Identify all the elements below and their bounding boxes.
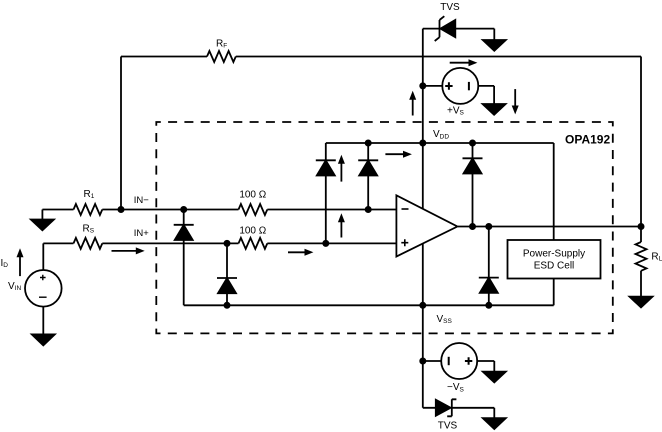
arrow right above +VS	[450, 59, 478, 66]
ground below RL	[630, 297, 653, 308]
arrow ID	[17, 248, 24, 276]
wire output node	[458, 226, 641, 228]
junction dot supply VSS	[419, 302, 426, 309]
svg-text:Power-Supply: Power-Supply	[523, 249, 585, 260]
op-amp U1	[396, 195, 457, 256]
TVS diode top	[423, 16, 495, 41]
svg-text:TVS: TVS	[438, 421, 458, 432]
arrow current into IN+ before box	[112, 247, 145, 254]
TVS diode bottom	[423, 399, 495, 416]
wire ESD cell top connector	[553, 143, 555, 240]
svg-text:VIN: VIN	[8, 281, 21, 292]
svg-text:OPA192: OPA192	[565, 133, 610, 147]
ground below VIN	[32, 334, 55, 345]
ground bottom TVS	[483, 418, 506, 429]
junction dot supply VDD	[419, 140, 426, 147]
svg-text:RS: RS	[83, 224, 95, 235]
arrow up left of +VS	[409, 91, 416, 116]
wire feedback left vertical	[120, 57, 122, 210]
wire ground stub left of R1	[41, 210, 43, 220]
junction dot D2 top	[365, 140, 372, 147]
svg-text:VDD: VDD	[433, 129, 449, 140]
resistor 100ohm on IN+	[239, 238, 268, 249]
junction dot D3 output	[469, 223, 476, 230]
wire D5 vertical IN- to VSS	[183, 210, 185, 306]
svg-text:IN−: IN−	[134, 195, 150, 206]
svg-text:+VS: +VS	[447, 105, 465, 116]
wire D2 vertical IN- to VDD	[367, 143, 369, 210]
wire VIN bottom stub	[42, 307, 44, 335]
svg-text:VSS: VSS	[437, 314, 453, 325]
wire IN- line	[42, 209, 396, 211]
wire TVS bottom to ground	[493, 408, 495, 418]
junction dot D2 bottom	[365, 206, 372, 213]
junction dot D4 bottom	[485, 302, 492, 309]
diode D6	[217, 278, 237, 293]
junction dot -VS tap	[419, 358, 426, 365]
wire -VS to ground	[493, 361, 495, 372]
svg-text:RF: RF	[216, 38, 227, 49]
rail VSS	[184, 304, 554, 306]
svg-text:RL: RL	[651, 251, 662, 262]
ground below R1	[31, 220, 54, 231]
box power-supply ESD cell	[508, 240, 601, 279]
current source +VS	[423, 68, 494, 104]
svg-text:ID: ID	[1, 258, 9, 269]
resistor RS	[74, 238, 103, 249]
arrow current on IN+ after 100ohm	[288, 249, 313, 256]
junction dot D4 output	[485, 223, 492, 230]
junction dot +VS tap	[419, 82, 426, 89]
wire TVS top to ground	[493, 29, 495, 40]
wire D4 vertical output to VSS	[488, 227, 490, 306]
junction dot feedback to IN-	[118, 206, 125, 213]
wire +VS to ground	[493, 86, 495, 104]
svg-text:100 Ω: 100 Ω	[239, 226, 266, 237]
wire ESD cell bottom connector	[553, 279, 555, 306]
junction dot D5 top	[180, 206, 187, 213]
svg-text:ESD Cell: ESD Cell	[534, 260, 575, 271]
resistor 100ohm on IN-	[239, 204, 268, 215]
junction dot D1 bottom	[322, 240, 329, 247]
wire D3 vertical output to VDD	[472, 143, 474, 227]
svg-text:IN+: IN+	[134, 228, 150, 239]
junction dot D6 top	[224, 240, 231, 247]
ground top TVS	[483, 40, 506, 51]
supply vertical line	[422, 29, 424, 408]
ground -VS	[483, 372, 506, 383]
arrow down right of +VS ground	[512, 89, 519, 114]
arrow right toward supply node	[385, 151, 412, 158]
arrow up right of D1	[338, 155, 345, 182]
wire IN+ line	[43, 242, 396, 244]
diode D3	[463, 158, 483, 173]
diode D5	[174, 225, 194, 240]
resistor RF	[207, 51, 236, 62]
ground +VS	[483, 104, 506, 115]
diode D1	[316, 160, 336, 175]
resistor R1	[74, 204, 103, 215]
wire D6 vertical IN+ to VSS	[226, 243, 228, 305]
diode D4	[479, 278, 499, 293]
wire feedback top rail	[121, 56, 641, 58]
wire D1 vertical IN+ to VDD	[325, 143, 327, 243]
resistor RL	[636, 227, 647, 297]
svg-text:−VS: −VS	[447, 382, 465, 393]
junction dot D6 bottom	[224, 302, 231, 309]
diode D2	[358, 160, 378, 175]
source VIN	[25, 243, 62, 306]
dashed boundary OPA192	[156, 122, 613, 333]
svg-text:100 Ω: 100 Ω	[239, 190, 266, 201]
current source -VS	[423, 343, 495, 379]
wire output right vertical	[640, 57, 642, 227]
junction dot D3 top	[469, 140, 476, 147]
svg-text:R1: R1	[84, 189, 95, 200]
rail VDD	[326, 142, 554, 144]
arrow up between inputs	[338, 213, 345, 237]
svg-text:TVS: TVS	[440, 2, 460, 13]
junction dot output RL node	[638, 223, 645, 230]
